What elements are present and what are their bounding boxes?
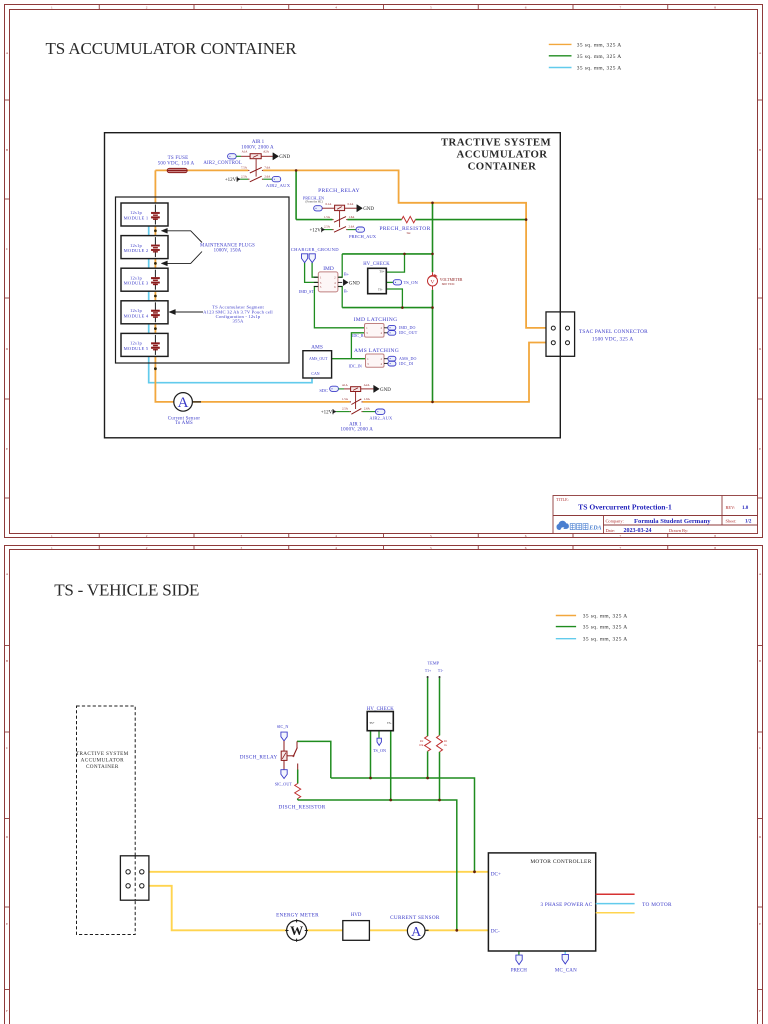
- connector IMD_DO: [388, 325, 396, 330]
- svg-text:F: F: [6, 1009, 8, 1013]
- battery module 3 box: [121, 268, 168, 291]
- svg-text:GND: GND: [279, 155, 290, 160]
- svg-text:W: W: [290, 923, 303, 938]
- wire red phase1: [596, 893, 635, 895]
- svg-text:TITLE:: TITLE:: [556, 497, 569, 502]
- resistor R2 10k: [425, 736, 431, 751]
- wire green prech stub: [518, 951, 520, 955]
- svg-text:7: 7: [620, 534, 622, 538]
- svg-text:SIC_OUT: SIC_OUT: [275, 781, 293, 786]
- svg-text:4: 4: [335, 534, 337, 538]
- svg-text:SIC_N: SIC_N: [277, 724, 289, 729]
- svg-text:A: A: [411, 925, 422, 940]
- svg-text:1/2: 1/2: [745, 519, 752, 524]
- svg-text:DISCH_RESISTOR: DISCH_RESISTOR: [279, 805, 326, 811]
- svg-text:HVD: HVD: [351, 913, 362, 918]
- svg-text:35 sq. mm, 325 A: 35 sq. mm, 325 A: [577, 66, 622, 72]
- svg-text:AIR 1: AIR 1: [252, 140, 265, 145]
- svg-text:ENERGY METER: ENERGY METER: [276, 913, 319, 919]
- svg-text:CONTAINER: CONTAINER: [86, 764, 119, 770]
- svg-text:7.6A: 7.6A: [264, 165, 271, 169]
- svg-text:ACCUMULATOR: ACCUMULATOR: [81, 758, 124, 764]
- svg-text:8: 8: [714, 534, 716, 538]
- connector TS_ON p1: [393, 280, 401, 285]
- svg-text:1k: 1k: [444, 743, 447, 747]
- svg-text:A: A: [759, 51, 762, 55]
- svg-text:Company:: Company:: [606, 518, 624, 523]
- block MOTOR CONTROLLER: [488, 853, 595, 951]
- svg-text:B: B: [759, 659, 762, 663]
- svg-text:E: E: [6, 447, 8, 451]
- svg-text:AMS LATCHING: AMS LATCHING: [354, 348, 399, 354]
- svg-text:V: V: [431, 279, 435, 285]
- svg-text:D: D: [6, 835, 9, 839]
- battery B2 symbol: [154, 237, 156, 245]
- svg-text:TS+: TS+: [369, 721, 375, 725]
- svg-text:3 PHASE POWER AC: 3 PHASE POWER AC: [541, 902, 593, 908]
- junction DC+ green tap: [473, 870, 476, 873]
- svg-text:F: F: [759, 1009, 761, 1013]
- relay DISCH contact: [287, 755, 295, 757]
- svg-text:12s1p: 12s1p: [130, 210, 142, 215]
- connector IDC_OUT: [388, 331, 396, 336]
- svg-text:7: 7: [620, 6, 622, 10]
- legend2 wire cyan: [556, 638, 576, 640]
- svg-text:2: 2: [146, 6, 148, 10]
- legend wire 35sqmm orange: [549, 43, 572, 45]
- wire yellow phase3: [596, 912, 635, 914]
- wire cyan phase2: [596, 903, 635, 905]
- connector SIC_N plug: [281, 732, 287, 741]
- svg-text:C: C: [759, 247, 762, 251]
- wire green bus B: [298, 800, 457, 930]
- svg-text:2.6A: 2.6A: [349, 224, 356, 228]
- svg-text:3: 3: [241, 534, 243, 538]
- wire cyan mc_can stub: [564, 951, 566, 954]
- svg-text:3: 3: [241, 6, 243, 10]
- svg-text:2.6A: 2.6A: [264, 174, 271, 178]
- svg-text:PRECH_AUX: PRECH_AUX: [349, 234, 377, 239]
- svg-text:TS-: TS-: [387, 721, 392, 725]
- legend wire 35sqmm cyan: [549, 67, 572, 69]
- TSAC main container box: [105, 133, 561, 438]
- wire green precharge drop: [295, 170, 297, 219]
- svg-text:5: 5: [430, 546, 432, 550]
- svg-text:10k: 10k: [419, 743, 424, 747]
- svg-text:D: D: [759, 835, 762, 839]
- junction busA hvcheck: [369, 777, 372, 780]
- svg-text:CURRENT SENSOR: CURRENT SENSOR: [390, 915, 440, 921]
- svg-text:C: C: [6, 746, 9, 750]
- wire green charger ground left: [305, 263, 318, 283]
- svg-text:2023-03-24: 2023-03-24: [624, 528, 652, 534]
- accumulator segment box: [116, 197, 290, 363]
- svg-text:TS Overcurrent Protection-1: TS Overcurrent Protection-1: [578, 502, 672, 511]
- connector IDC_DI: [388, 361, 396, 366]
- svg-text:355A: 355A: [232, 319, 243, 324]
- maintenance plugs callout arrows: [166, 231, 202, 243]
- EDA logo: [557, 521, 569, 529]
- junction HVCHECK TS+ bus: [403, 253, 406, 256]
- svg-text:7: 7: [620, 546, 622, 550]
- wire green hvcheck2 tson stub: [378, 731, 380, 739]
- svg-text:A: A: [178, 395, 189, 411]
- svg-text:IDC_OUT: IDC_OUT: [399, 330, 418, 335]
- svg-text:12s1p: 12s1p: [130, 243, 142, 248]
- wire green IMD top bus: [342, 253, 432, 255]
- connector TSAC panel: [546, 312, 575, 356]
- svg-text:DISCH_RELAY: DISCH_RELAY: [240, 754, 278, 760]
- wire green temp T1-: [439, 677, 441, 800]
- svg-text:TS_ON: TS_ON: [373, 748, 386, 753]
- svg-text:A: A: [6, 51, 9, 55]
- svg-text:+12V: +12V: [321, 410, 333, 415]
- svg-text:AIR2_AUX: AIR2_AUX: [369, 416, 393, 421]
- svg-text:A1A: A1A: [342, 383, 349, 387]
- svg-text:Drawn By:: Drawn By:: [669, 528, 688, 533]
- svg-text:CONTAINER: CONTAINER: [468, 161, 537, 173]
- svg-text:IMD: IMD: [323, 266, 334, 272]
- svg-text:12s1p: 12s1p: [130, 275, 142, 280]
- ground GND AIR2 coil: [374, 385, 380, 392]
- svg-text:A: A: [759, 572, 762, 576]
- svg-text:Sheet:: Sheet:: [726, 518, 737, 523]
- junction orange to HV sense: [431, 202, 434, 205]
- title block sheet 1: [553, 496, 758, 534]
- svg-text:MODULE 1: MODULE 1: [124, 216, 149, 221]
- svg-text:12s1p: 12s1p: [130, 308, 142, 313]
- svg-text:MODULE 2: MODULE 2: [124, 248, 149, 253]
- connector TSAC vehicle side: [120, 856, 148, 900]
- wire green hvcheck2 TS-: [390, 731, 392, 800]
- svg-text:GND: GND: [380, 388, 391, 393]
- svg-text:IDC_DI: IDC_DI: [399, 361, 414, 366]
- svg-text:C: C: [759, 746, 762, 750]
- connector AIR2_CONTROL: [228, 154, 237, 159]
- svg-text:T1+: T1+: [425, 669, 431, 673]
- connector AMS_DO: [388, 356, 396, 361]
- wire green temp T1+: [427, 677, 429, 778]
- wire yellow DC+: [144, 871, 488, 873]
- svg-text:GND: GND: [363, 207, 374, 212]
- svg-text:3: 3: [241, 546, 243, 550]
- svg-text:B: B: [6, 148, 9, 152]
- svg-text:6: 6: [525, 546, 527, 550]
- svg-text:TEMP: TEMP: [427, 661, 439, 666]
- svg-text:+12V: +12V: [225, 178, 237, 183]
- wire orange fuse segment: [155, 169, 248, 171]
- svg-text:TRACTIVE SYSTEM: TRACTIVE SYSTEM: [441, 136, 551, 148]
- svg-text:2: 2: [146, 546, 148, 550]
- svg-text:2.5A: 2.5A: [342, 407, 349, 411]
- node T1- pin: [439, 676, 441, 678]
- battery module 4 box: [121, 301, 168, 324]
- svg-text:AMS: AMS: [311, 345, 323, 351]
- svg-text:Date:: Date:: [606, 528, 616, 533]
- svg-text:35 sq. mm, 325 A: 35 sq. mm, 325 A: [583, 625, 628, 631]
- svg-text:8: 8: [714, 6, 716, 10]
- svg-text:CHARGER_GROUND: CHARGER_GROUND: [291, 247, 339, 252]
- battery module 5 box: [121, 333, 168, 356]
- svg-text:E: E: [6, 922, 8, 926]
- resistor R1 1k: [437, 735, 443, 752]
- svg-text:PRECH: PRECH: [511, 969, 528, 974]
- wire green disch resistor link: [297, 770, 299, 801]
- node maintenance plug 5: [154, 367, 157, 370]
- svg-text:500 VDC, 150 A: 500 VDC, 150 A: [158, 162, 195, 167]
- svg-text:7.5A: 7.5A: [241, 165, 248, 169]
- svg-text:35 sq. mm, 325 A: 35 sq. mm, 325 A: [583, 637, 628, 643]
- connector charger ground pin1: [302, 254, 308, 263]
- svg-text:6.2A: 6.2A: [348, 202, 355, 206]
- svg-text:35 sq. mm, 325 A: 35 sq. mm, 325 A: [577, 54, 622, 60]
- wire orange AIR1 to TSAC top: [263, 170, 551, 328]
- junction HVCHECK TS- bus: [401, 306, 404, 309]
- svg-text:MC_CAN: MC_CAN: [555, 969, 577, 974]
- connector PRECH_EN: [314, 206, 323, 211]
- svg-text:ACCUMULATOR: ACCUMULATOR: [457, 149, 548, 161]
- wire green HVCHECK TS-: [386, 289, 402, 308]
- svg-text:4: 4: [335, 6, 337, 10]
- svg-text:PRECH_RESISTOR: PRECH_RESISTOR: [379, 226, 430, 232]
- connector AIR2_AUX top: [272, 177, 281, 182]
- ground GND IMD: [343, 279, 348, 285]
- battery module 1 box: [121, 203, 168, 226]
- svg-text:A2A: A2A: [364, 383, 371, 387]
- junction busB R1: [438, 799, 441, 802]
- svg-text:REV:: REV:: [726, 505, 736, 510]
- relay AIR2 actuator: [355, 392, 357, 410]
- wire green HVCHECK TSON stub: [386, 281, 393, 283]
- relay PRECH actuator: [339, 211, 341, 228]
- svg-text:1000V, 2000 A: 1000V, 2000 A: [340, 428, 373, 433]
- wire green disch relay to busA: [297, 741, 331, 778]
- legend2 wire green: [556, 626, 576, 628]
- legend2 wire orange: [556, 615, 576, 617]
- svg-text:E: E: [759, 447, 761, 451]
- wire green IMD B+ riser: [338, 254, 342, 277]
- svg-text:6: 6: [525, 6, 527, 10]
- svg-text:E: E: [759, 922, 761, 926]
- wire green IMD_ST to latch: [314, 287, 364, 328]
- svg-text:2: 2: [146, 534, 148, 538]
- connector TS_ON vehicle: [377, 738, 381, 745]
- wire green HVCHECK TS+: [386, 254, 404, 272]
- TSAC dashed outline: [77, 706, 136, 935]
- svg-text:B: B: [6, 659, 9, 663]
- svg-text:8: 8: [714, 546, 716, 550]
- junction TS+ precharge tap: [295, 169, 298, 172]
- svg-text:1.6A: 1.6A: [364, 397, 371, 401]
- svg-text:MODULE 4: MODULE 4: [124, 313, 149, 318]
- relay AIR1 actuator: [255, 159, 257, 177]
- battery B4 symbol: [154, 302, 156, 310]
- svg-text:TRACTIVE SYSTEM: TRACTIVE SYSTEM: [76, 751, 129, 757]
- svg-text:DC-: DC-: [491, 929, 500, 935]
- legend wire 35sqmm green: [549, 55, 572, 57]
- wire green charger ground right: [312, 263, 318, 278]
- svg-text:35 sq. mm, 325 A: 35 sq. mm, 325 A: [583, 614, 628, 620]
- svg-text:(From the HC): (From the HC): [306, 200, 323, 204]
- svg-text:PRECH_RELAY: PRECH_RELAY: [318, 188, 360, 194]
- svg-text:6.1A: 6.1A: [326, 202, 333, 206]
- svg-text:D: D: [759, 347, 762, 351]
- svg-text:TSAC PANEL CONNECTOR: TSAC PANEL CONNECTOR: [579, 329, 648, 335]
- svg-text:2.5A: 2.5A: [241, 174, 248, 178]
- svg-text:2.5A: 2.5A: [324, 224, 331, 228]
- svg-text:1.0: 1.0: [742, 506, 749, 511]
- ground GND PRECH coil: [357, 205, 363, 212]
- svg-text:B: B: [759, 148, 762, 152]
- svg-text:1.6A: 1.6A: [349, 215, 356, 219]
- svg-text:Formula Student Germany: Formula Student Germany: [634, 518, 711, 525]
- svg-text:MOTOR CONTROLLER: MOTOR CONTROLLER: [530, 859, 591, 865]
- wire green precharge row: [296, 219, 526, 221]
- svg-text:TS_ON: TS_ON: [404, 280, 419, 285]
- wire cyan TS- maintenance to AMS: [149, 226, 312, 382]
- svg-text:D: D: [6, 347, 9, 351]
- svg-text:1: 1: [51, 546, 53, 550]
- svg-text:MODULE 3: MODULE 3: [124, 281, 149, 286]
- connector SIC_OUT plug: [281, 770, 287, 779]
- svg-text:T1-: T1-: [438, 669, 444, 673]
- connector AIR2_AUX bottom: [376, 409, 385, 414]
- wire yellow DC-: [144, 886, 488, 931]
- wire orange AIR2 to TSAC bottom: [363, 343, 552, 402]
- svg-text:IDC_IN: IDC_IN: [349, 364, 362, 369]
- wire green IMD bottom bus: [342, 307, 432, 309]
- svg-text:C: C: [6, 247, 9, 251]
- svg-text:IMD_ST: IMD_ST: [299, 289, 315, 294]
- wire green bus A: [331, 778, 475, 872]
- svg-text:A: A: [6, 572, 9, 576]
- svg-text:AMS_OUT: AMS_OUT: [309, 357, 328, 361]
- svg-text:1: 1: [51, 6, 53, 10]
- node T1+ pin: [427, 676, 429, 678]
- battery module 2 box: [121, 236, 168, 259]
- svg-text:CAN: CAN: [311, 372, 319, 376]
- meter VOLTMETER 600VDC: [432, 272, 434, 276]
- segment callout arrow: [175, 311, 204, 313]
- svg-text:TS FUSE: TS FUSE: [168, 156, 189, 161]
- junction precharge resistor out: [525, 218, 528, 221]
- junction IMD bottom bus: [431, 306, 434, 309]
- connector MC_CAN plug: [562, 954, 568, 964]
- meter current sensor to AMS: [192, 401, 201, 403]
- svg-text:SDC: SDC: [319, 388, 328, 393]
- svg-text:GND: GND: [349, 281, 360, 286]
- svg-text:MODULE 5: MODULE 5: [124, 346, 149, 351]
- wire green hvcheck2 TS+: [370, 731, 372, 778]
- ground GND AIR1 coil: [273, 153, 279, 160]
- connector charger ground pin2: [309, 254, 315, 263]
- svg-text:HV_CHECK: HV_CHECK: [363, 262, 390, 267]
- resistor PRECH_RESISTOR: [402, 216, 416, 222]
- svg-text:AIR2_AUX: AIR2_AUX: [266, 183, 291, 188]
- svg-text:1.5A: 1.5A: [324, 215, 331, 219]
- junction busA R2: [426, 777, 429, 780]
- node maintenance plug 4: [154, 327, 157, 330]
- node maintenance plug 3: [154, 295, 157, 298]
- junction busB hvcheck: [389, 799, 392, 802]
- svg-text:1.5A: 1.5A: [342, 397, 349, 401]
- node maintenance plug 2: [154, 262, 157, 265]
- battery B5 symbol: [154, 335, 156, 343]
- svg-text:1000V, 150A: 1000V, 150A: [214, 249, 242, 254]
- connector PRECH_AUX: [356, 227, 365, 232]
- svg-text:35 sq. mm, 325 A: 35 sq. mm, 325 A: [577, 42, 622, 48]
- svg-text:TS+: TS+: [379, 270, 385, 274]
- svg-text:4: 4: [335, 546, 337, 550]
- junction DC- green tap: [455, 929, 458, 932]
- svg-text:5: 5: [430, 534, 432, 538]
- svg-text:600 VDC: 600 VDC: [442, 282, 456, 286]
- svg-text:To AMS: To AMS: [175, 421, 193, 426]
- svg-text:+12V: +12V: [309, 228, 321, 233]
- battery B3 symbol: [154, 270, 156, 278]
- wire orange TS+ main loop: [155, 170, 349, 402]
- svg-text:1500 VDC, 325 A: 1500 VDC, 325 A: [592, 337, 633, 343]
- svg-text:IDC_R: IDC_R: [352, 333, 364, 338]
- svg-text:VOLTMETER: VOLTMETER: [440, 278, 463, 282]
- connector PRECH plug: [516, 955, 522, 965]
- svg-text:AIR2_CONTROL: AIR2_CONTROL: [203, 161, 242, 166]
- svg-text:B-: B-: [344, 288, 349, 293]
- node maintenance plug 1: [154, 229, 157, 232]
- svg-text:A1A: A1A: [242, 150, 249, 154]
- battery B1 symbol: [154, 205, 156, 213]
- sheet 1 border frame: [5, 5, 763, 538]
- sheet 2 border frame: [5, 546, 763, 1024]
- svg-text:1: 1: [51, 534, 53, 538]
- svg-text:A2A: A2A: [263, 150, 270, 154]
- wire green AMS_OUT: [332, 333, 366, 359]
- relay DISCH_RELAY coil: [283, 741, 285, 751]
- svg-text:TO MOTOR: TO MOTOR: [642, 902, 672, 908]
- wire green IMD B- drop: [338, 287, 342, 308]
- junction IMD top bus: [431, 253, 434, 256]
- svg-text:5: 5: [430, 6, 432, 10]
- svg-text:DC+: DC+: [491, 872, 501, 878]
- svg-text:TS-: TS-: [378, 288, 383, 292]
- svg-text:IMD LATCHING: IMD LATCHING: [354, 317, 398, 323]
- svg-text:12s1p: 12s1p: [130, 341, 142, 346]
- svg-text:2.6A: 2.6A: [364, 407, 371, 411]
- svg-text:6: 6: [525, 534, 527, 538]
- svg-text:B+: B+: [344, 271, 350, 276]
- svg-text:EDA: EDA: [588, 526, 601, 532]
- resistor DISCH_RESISTOR: [295, 784, 301, 799]
- svg-text:TS ACCUMULATOR CONTAINER: TS ACCUMULATOR CONTAINER: [46, 39, 298, 58]
- junction TS- sense tap: [431, 401, 434, 404]
- svg-text:TS - VEHICLE SIDE: TS - VEHICLE SIDE: [54, 580, 199, 599]
- wire green voltmeter riser: [432, 203, 434, 402]
